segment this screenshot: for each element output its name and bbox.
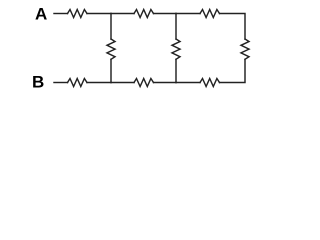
wire A lead (54, 13, 68, 15)
wire top rail: R1 to node 1 (87, 13, 111, 15)
resistor R8 (bottom rail, middle) (134, 79, 154, 87)
resistor R9 (bottom rail, right) (200, 79, 220, 87)
wire bottom-right corner (220, 59, 246, 82)
svg-text:B: B (32, 73, 44, 92)
resistor R5 (vertical, node 2) (172, 39, 180, 59)
resistor R7 (bottom rail, left) (68, 79, 87, 87)
wire vertical branch 1 upper (110, 14, 112, 40)
resistor R1 (top rail, left) (68, 10, 87, 18)
resistor R2 (top rail, middle) (134, 10, 154, 18)
resistor R6 (vertical, right branch) (241, 39, 249, 59)
svg-text:A: A (35, 5, 47, 24)
wire B lead (54, 82, 68, 84)
wire vertical branch 2 lower (175, 59, 177, 82)
wire bottom rail: node 4 to R9 (176, 82, 200, 84)
wire top-right corner (220, 14, 246, 40)
resistor R3 (top rail, right) (200, 10, 220, 18)
resistor R4 (vertical, node 1) (107, 39, 115, 59)
wire vertical branch 2 upper (175, 14, 177, 40)
wire bottom rail: R8 to node 4 (154, 82, 177, 84)
wire top rail: node 2 to R3 (176, 13, 200, 15)
wire bottom rail: node 3 to R8 (111, 82, 134, 84)
wire top rail: R2 to node 2 (154, 13, 177, 15)
wire bottom rail: R7 to node 3 (87, 82, 111, 84)
wire top rail: node 1 to R2 (111, 13, 134, 15)
wire vertical branch 1 lower (110, 59, 112, 82)
